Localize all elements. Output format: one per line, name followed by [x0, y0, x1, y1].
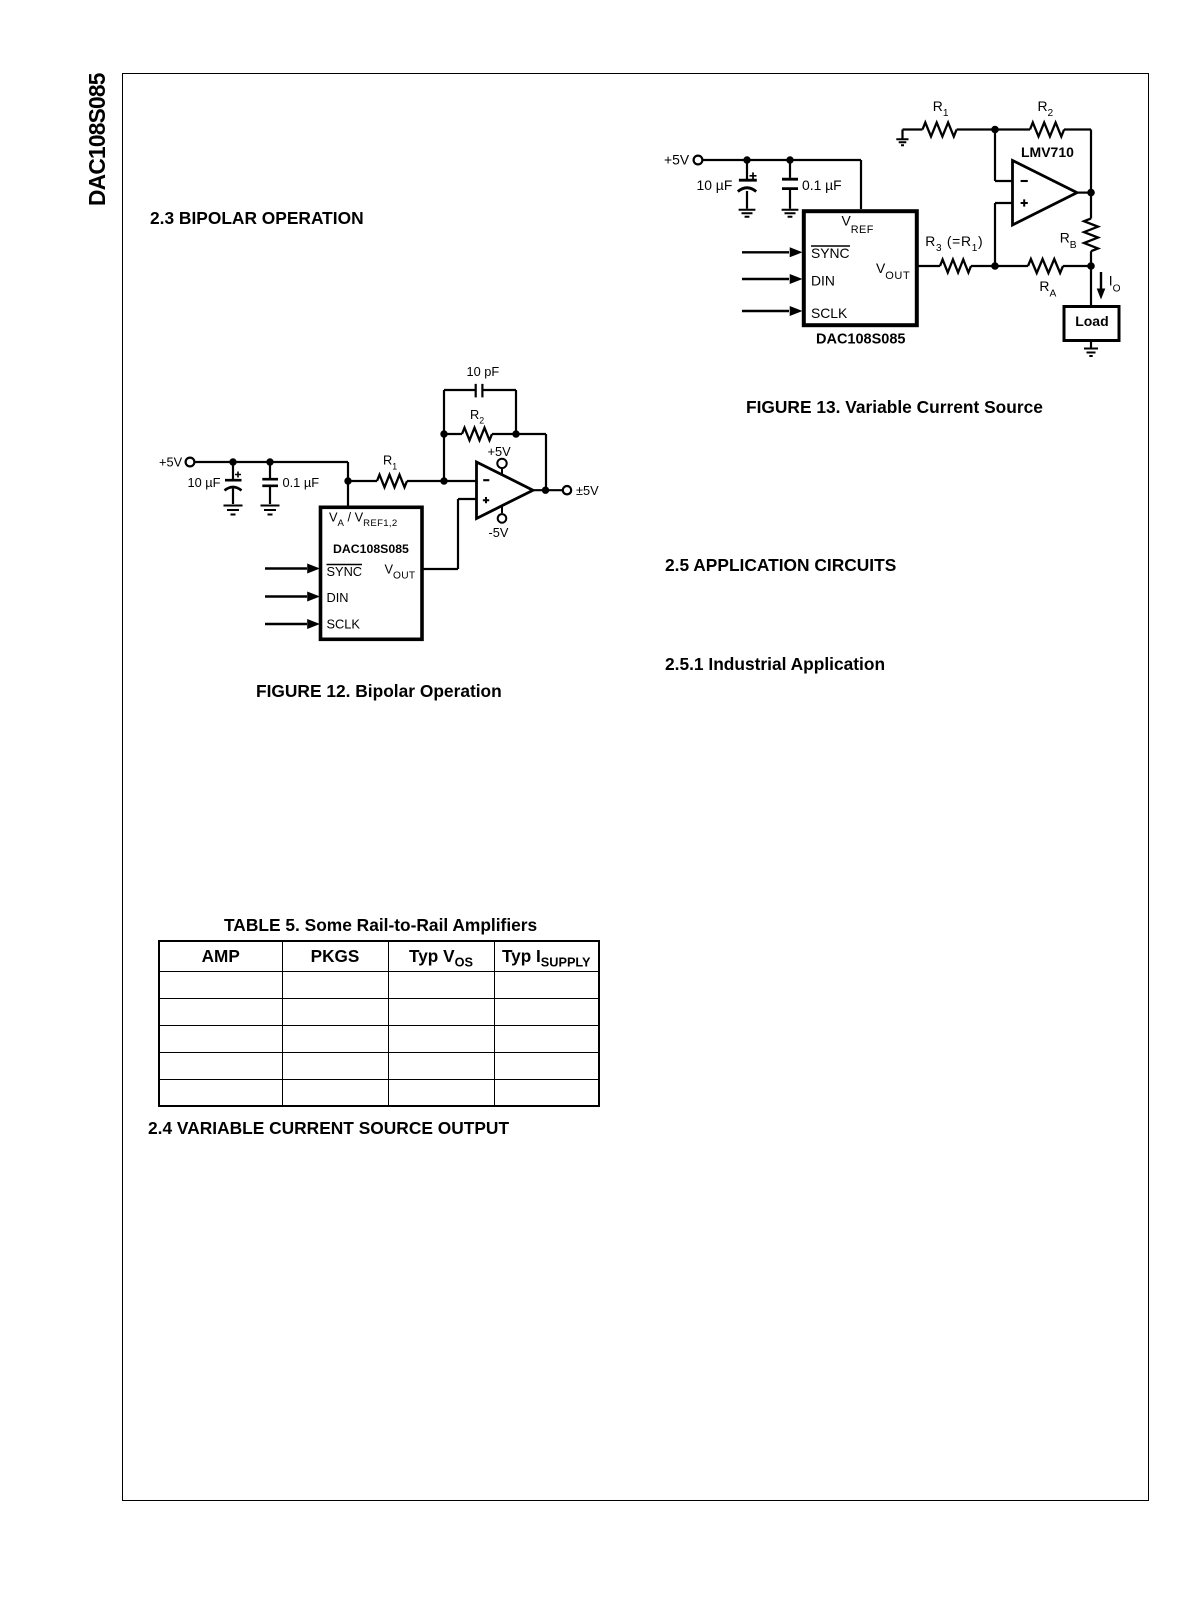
svg-text:DAC108S085: DAC108S085	[333, 542, 409, 556]
svg-text:R1: R1	[383, 453, 397, 472]
svg-text:VOUT: VOUT	[385, 562, 416, 582]
svg-text:R3 (=R1): R3 (=R1)	[925, 233, 983, 254]
svg-text:+5V: +5V	[159, 455, 183, 470]
svg-text:10 µF: 10 µF	[188, 475, 221, 490]
svg-text:+5V: +5V	[488, 444, 512, 459]
svg-text:RA: RA	[1039, 278, 1056, 300]
svg-text:SYNC: SYNC	[811, 245, 850, 261]
svg-text:R2: R2	[1038, 98, 1054, 119]
svg-text:R1: R1	[933, 98, 949, 119]
svg-text:VA / VREF1,2: VA / VREF1,2	[329, 509, 397, 529]
svg-text:10 pF: 10 pF	[467, 364, 500, 379]
svg-text:DIN: DIN	[327, 590, 349, 605]
svg-text:VREF: VREF	[842, 213, 874, 236]
svg-text:DAC108S085: DAC108S085	[816, 332, 905, 348]
svg-text:0.1 µF: 0.1 µF	[802, 177, 842, 193]
svg-text:SCLK: SCLK	[327, 617, 361, 632]
svg-text:IO: IO	[1109, 273, 1121, 295]
svg-text:Load: Load	[1075, 313, 1108, 329]
svg-text:±5V: ±5V	[576, 483, 599, 498]
svg-text:DIN: DIN	[811, 272, 835, 288]
svg-text:0.1 µF: 0.1 µF	[283, 475, 320, 490]
svg-text:10 µF: 10 µF	[697, 177, 733, 193]
svg-text:-5V: -5V	[489, 525, 509, 540]
svg-text:VOUT: VOUT	[876, 260, 910, 282]
svg-text:LMV710: LMV710	[1021, 144, 1074, 160]
svg-text:SCLK: SCLK	[811, 305, 848, 321]
svg-text:R2: R2	[470, 407, 484, 426]
svg-text:+5V: +5V	[664, 152, 690, 168]
svg-text:RB: RB	[1060, 230, 1077, 252]
svg-text:SYNC: SYNC	[327, 564, 363, 579]
